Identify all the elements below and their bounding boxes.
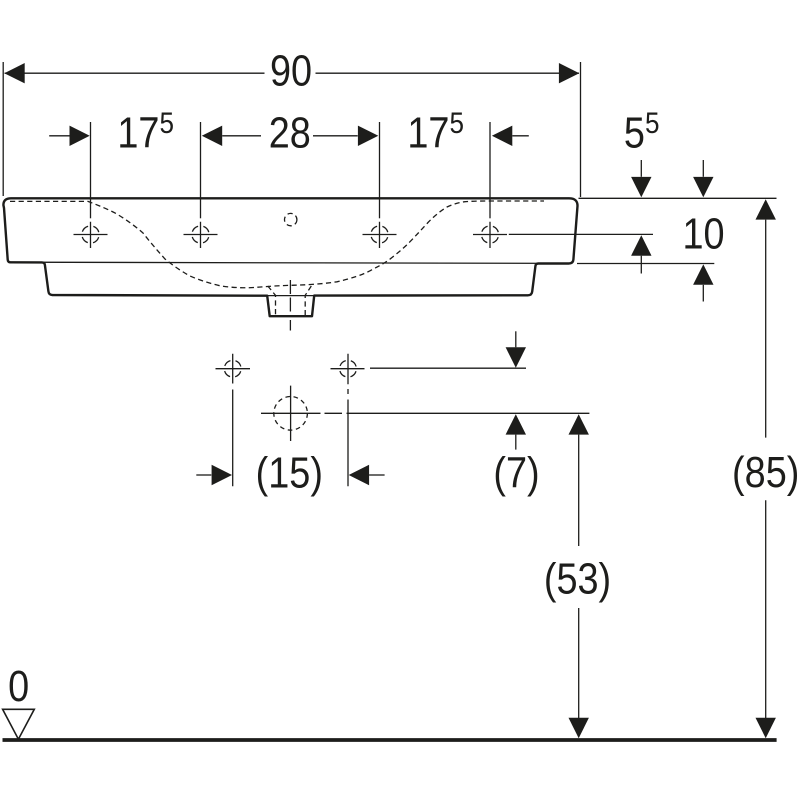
dimension 17.5 right label (407, 106, 464, 157)
siphon axis line (325, 412, 590, 414)
drain center line (289, 280, 291, 331)
dimension 7 label (493, 448, 539, 497)
tap hole 3 (363, 222, 397, 248)
dimension 53 label (544, 554, 611, 603)
joint line right extension (577, 263, 714, 265)
svg-text:10: 10 (682, 209, 724, 258)
dimension 90 line (5, 72, 579, 74)
washbasin joint line (8, 262, 572, 263)
svg-text:(85): (85) (732, 448, 799, 497)
dimension 28 line and arrows (202, 126, 378, 146)
svg-text:(15): (15) (256, 448, 323, 497)
dimension 10 down arrow (693, 160, 713, 197)
dimension 17.5 left label (117, 106, 174, 157)
svg-text:(53): (53) (544, 554, 611, 603)
drain opening thin line (267, 295, 314, 297)
dimension 53 lower line and arrow (569, 608, 589, 738)
dimension 90 arrow left (4, 63, 24, 83)
dimension 10 label (682, 209, 724, 258)
dimension 90 extension line right (580, 62, 582, 197)
dimension 5.5 label (624, 106, 660, 157)
dimension 15 left arrow (196, 465, 232, 485)
dimension 15 right arrow (349, 465, 385, 485)
dimension 90 arrow right (559, 63, 579, 83)
tap hole 3 extension line (379, 122, 381, 218)
mounting hole B axis line (370, 367, 526, 369)
dimension 17.5 right arrow (492, 126, 529, 146)
dimension 10 up arrow (693, 264, 713, 301)
mounting hole A (216, 354, 251, 487)
top edge right extension line (579, 197, 777, 199)
siphon circle C (261, 386, 321, 441)
dimension 90 extension line left (2, 62, 4, 196)
dimension 5.5 up arrow (631, 235, 651, 273)
overflow hole (285, 213, 297, 225)
dimension 5.5 down arrow (631, 160, 651, 197)
tap hole 4 (473, 222, 507, 248)
dimension 85 lower line and arrow (756, 500, 776, 738)
dimension 90 label (270, 46, 312, 95)
dimension 53 upper arrow (569, 414, 589, 546)
dimension 85 label (732, 448, 799, 497)
zero level datum triangle (3, 709, 35, 739)
tap hole axis line (509, 233, 653, 235)
tap hole 1 extension line (90, 122, 92, 218)
dimension 17.5 left arrow (49, 126, 89, 146)
dimension 85 upper arrow (756, 199, 776, 437)
mounting hole B (331, 354, 365, 487)
dimension 28 label (269, 108, 311, 157)
tap hole 4 extension line (489, 122, 491, 218)
dimension 7 down arrow (506, 331, 526, 367)
washbasin outline (3, 198, 577, 316)
drain funnel dashed right (305, 286, 311, 316)
svg-text:90: 90 (270, 46, 312, 95)
dimension 15 label (256, 448, 323, 497)
zero level label (8, 661, 29, 710)
svg-text:0: 0 (8, 661, 29, 710)
svg-text:28: 28 (269, 108, 311, 157)
svg-text:(7): (7) (493, 448, 539, 497)
tap hole 1 (74, 222, 108, 248)
tap hole 2 (184, 222, 218, 248)
basin bowl dashed contour (10, 201, 544, 288)
tap hole 2 extension line (200, 122, 202, 218)
dimension 7 up arrow (506, 414, 526, 449)
drain funnel dashed left (268, 286, 276, 316)
ground line (3, 738, 777, 742)
